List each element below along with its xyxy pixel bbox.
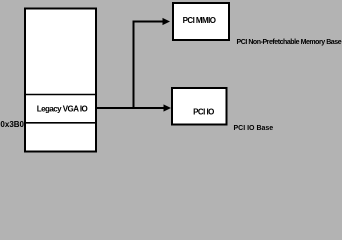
wire horizontal mid bbox=[96, 107, 165, 109]
svg-text:PCI IO Base: PCI IO Base bbox=[234, 125, 274, 132]
svg-text:PCI Non-Prefetchable Memory Ba: PCI Non-Prefetchable Memory Base bbox=[237, 39, 342, 46]
arrowhead to PCI IO bbox=[164, 104, 172, 111]
svg-text:PCI IO: PCI IO bbox=[193, 107, 214, 116]
memory map box (legacy region) bbox=[25, 9, 96, 152]
svg-text:0x3B0: 0x3B0 bbox=[0, 120, 24, 129]
box PCI IO bbox=[172, 88, 227, 125]
divider lower bbox=[24, 122, 97, 124]
wire vertical bbox=[133, 22, 135, 110]
svg-text:PCI MMIO: PCI MMIO bbox=[183, 16, 216, 25]
box PCI MMIO bbox=[173, 3, 229, 40]
divider upper bbox=[24, 94, 97, 96]
svg-text:Legacy VGA IO: Legacy VGA IO bbox=[37, 105, 88, 114]
wire horizontal top bbox=[133, 21, 164, 23]
arrowhead to PCI MMIO bbox=[163, 18, 171, 25]
